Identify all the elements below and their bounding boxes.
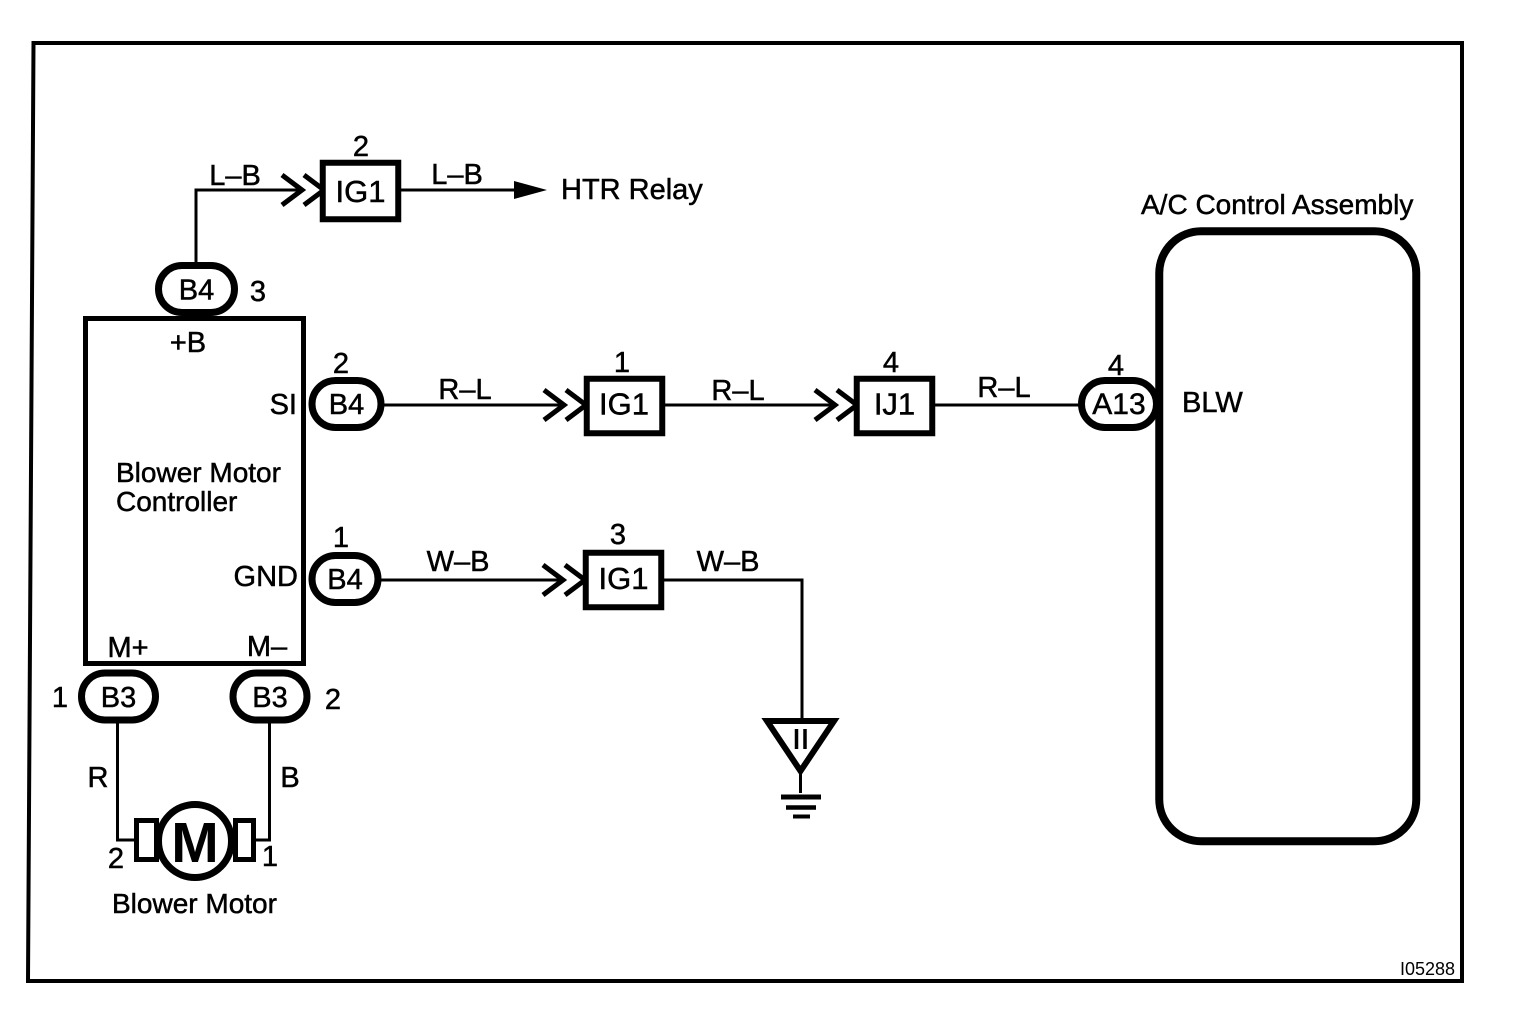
ground symbol II mark (797, 729, 806, 749)
svg-text:B3: B3 (252, 682, 287, 714)
svg-text:B: B (280, 762, 299, 794)
connector B3 pin 1 (M+) (82, 673, 156, 720)
svg-text:R–L: R–L (711, 375, 764, 407)
wire chevrons before IG1 (middle) (544, 390, 586, 420)
svg-text:R–L: R–L (977, 372, 1030, 404)
blower motor controller box (86, 319, 304, 664)
svg-text:B3: B3 (101, 682, 136, 714)
junction block IJ1 (857, 379, 933, 434)
svg-text:Blower Motor: Blower Motor (112, 888, 277, 919)
svg-text:L–B: L–B (431, 159, 483, 191)
svg-text:W–B: W–B (697, 546, 760, 578)
svg-text:IG1: IG1 (336, 174, 386, 209)
connector B3 pin 2 (M-) (233, 673, 307, 720)
wire chevrons before IG1 (top) (282, 175, 324, 205)
connector B4 pin 1 (GND) (312, 556, 378, 603)
wire chevrons before IG1 (bottom) (543, 565, 585, 595)
svg-text:Blower Motor: Blower Motor (116, 457, 281, 488)
ground stem and hatch (799, 771, 802, 793)
svg-text:L–B: L–B (209, 160, 261, 192)
svg-text:SI: SI (270, 389, 297, 421)
blower motor brush left (137, 821, 157, 860)
junction block IG1 (top) (323, 163, 399, 220)
svg-text:GND: GND (234, 561, 298, 593)
svg-text:2: 2 (108, 843, 124, 875)
wire W-B from IG1 down to ground (664, 580, 802, 719)
wire L-B from B4 pin 3 up and right to chevrons (196, 190, 302, 266)
svg-text:IJ1: IJ1 (874, 387, 915, 422)
blower motor body M (159, 805, 232, 878)
svg-text:1: 1 (52, 682, 68, 714)
A/C control assembly box (1159, 231, 1416, 841)
svg-text:I05288: I05288 (1400, 959, 1455, 979)
connector B4 pin 2 (SI) (312, 381, 381, 428)
svg-text:M+: M+ (107, 632, 148, 664)
svg-text:BLW: BLW (1182, 387, 1243, 419)
svg-text:B4: B4 (329, 389, 364, 421)
svg-text:B4: B4 (179, 275, 214, 307)
wire R from B3 to motor (118, 722, 137, 840)
svg-text:IG1: IG1 (599, 387, 649, 422)
svg-text:B4: B4 (327, 564, 362, 596)
svg-text:A/C Control Assembly: A/C Control Assembly (1141, 189, 1413, 220)
svg-text:2: 2 (325, 684, 341, 716)
svg-text:HTR Relay: HTR Relay (561, 174, 703, 206)
svg-text:1: 1 (333, 522, 349, 554)
junction block IG1 (bottom) (586, 553, 662, 608)
svg-text:W–B: W–B (427, 546, 490, 578)
svg-text:Controller: Controller (116, 486, 237, 517)
svg-text:M–: M– (247, 631, 288, 663)
wire W-B from B4 GND to chevrons (381, 579, 563, 582)
wire with arrow to HTR Relay (401, 189, 520, 192)
svg-text:IG1: IG1 (599, 561, 649, 596)
svg-text:4: 4 (883, 347, 899, 379)
wire R-L from IJ1 to A13 (935, 404, 1080, 407)
svg-text:2: 2 (333, 348, 349, 380)
wire chevrons before IJ1 (815, 390, 857, 420)
connector B4 pin 3 (top, +B) (159, 266, 235, 313)
svg-text:+B: +B (170, 327, 206, 359)
svg-text:3: 3 (250, 276, 266, 308)
blower motor brush right (236, 821, 254, 860)
wire R-L from B4 SI to chevrons (383, 404, 564, 407)
connector A13 pin 4 (1082, 381, 1157, 428)
svg-text:1: 1 (614, 347, 630, 379)
svg-text:M: M (171, 811, 218, 875)
svg-text:1: 1 (262, 841, 278, 873)
svg-text:3: 3 (610, 519, 626, 551)
svg-text:R–L: R–L (438, 374, 491, 406)
ground symbol triangle (767, 721, 834, 771)
svg-text:2: 2 (353, 131, 369, 163)
wire B from B3 to motor (254, 722, 270, 840)
junction block IG1 (middle) (587, 379, 663, 434)
svg-text:R: R (88, 762, 109, 794)
svg-text:A13: A13 (1092, 388, 1145, 421)
wire R-L from IG1 to chevrons before IJ1 (664, 404, 835, 407)
